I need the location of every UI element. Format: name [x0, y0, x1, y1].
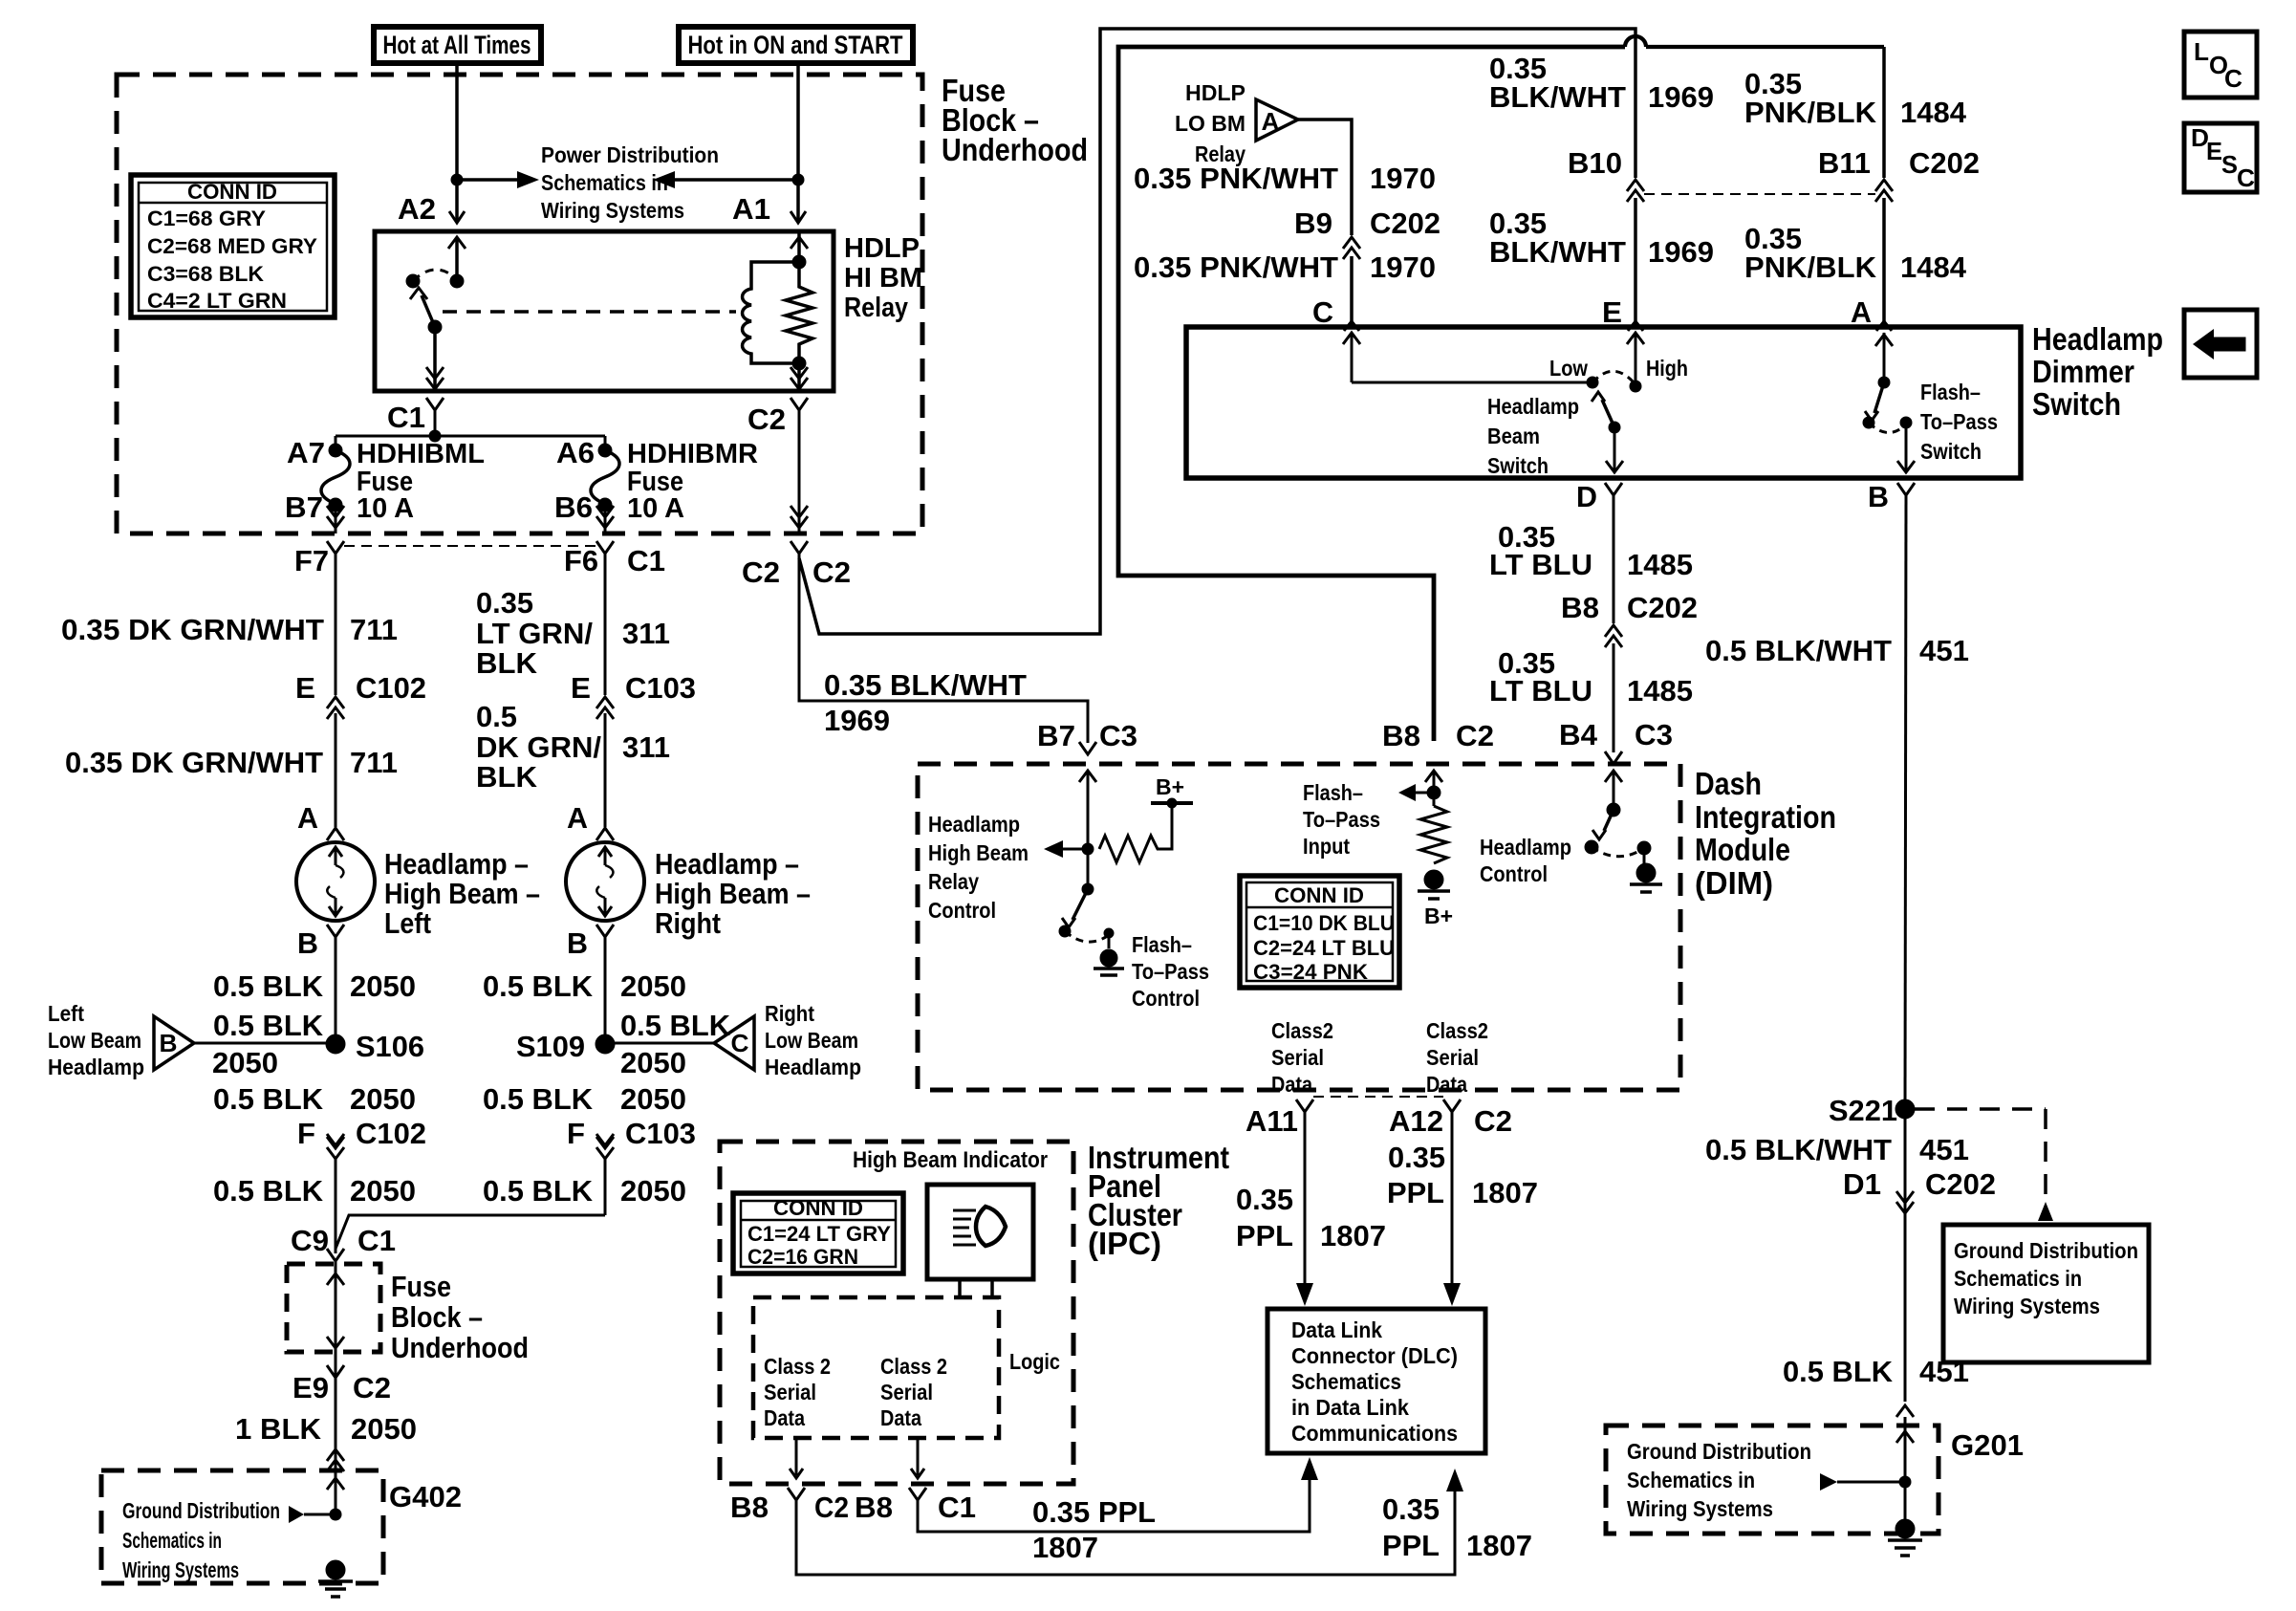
- connector C1 face F7: [327, 541, 344, 554]
- svg-text:451: 451: [1919, 634, 1969, 667]
- dashed ref from S221 to ground distribution note: [1915, 1107, 2046, 1111]
- svg-text:0.5 BLK/WHT: 0.5 BLK/WHT: [1705, 1133, 1892, 1166]
- svg-text:C2: C2: [1474, 1104, 1512, 1138]
- wire exits fuse block: right fuse output F6: [604, 505, 607, 533]
- relay pin A1 wire through coil: [797, 231, 801, 262]
- svg-text:Wiring Systems: Wiring Systems: [541, 198, 684, 223]
- svg-text:B11: B11: [1818, 146, 1871, 180]
- svg-text:Headlamp: Headlamp: [1487, 394, 1579, 419]
- off-page ref: Right Low Beam Headlamp (triangle C): [605, 1042, 714, 1045]
- svg-text:Switch: Switch: [1920, 439, 1982, 464]
- IPC logic block (dashed): [753, 1297, 999, 1438]
- svg-text:Schematics in: Schematics in: [541, 170, 668, 195]
- splice S109: [596, 1034, 615, 1054]
- connector mate dashed link B10-B11: [1644, 193, 1875, 195]
- svg-text:Underhood: Underhood: [391, 1331, 529, 1364]
- svg-text:Low Beam: Low Beam: [48, 1028, 141, 1053]
- svg-text:1969: 1969: [1648, 80, 1714, 114]
- svg-text:Logic: Logic: [1009, 1349, 1060, 1374]
- svg-text:C3: C3: [1099, 719, 1137, 752]
- svg-text:E9: E9: [292, 1371, 329, 1404]
- svg-text:2050: 2050: [212, 1046, 278, 1079]
- svg-text:Serial: Serial: [764, 1380, 816, 1404]
- lamp: Headlamp - High Beam - Right: [566, 842, 644, 921]
- indicator lamp leads: [958, 1279, 962, 1297]
- relay switch output wire to C1: [433, 327, 437, 391]
- svg-text:LT BLU: LT BLU: [1489, 548, 1592, 581]
- wire continues to G201: [1904, 1109, 1907, 1402]
- svg-text:Low: Low: [1549, 356, 1588, 381]
- svg-text:0.35 PNK/WHT: 0.35 PNK/WHT: [1134, 250, 1338, 284]
- svg-text:C: C: [731, 1029, 749, 1057]
- svg-text:B8: B8: [855, 1491, 893, 1524]
- svg-text:0.35 PPL: 0.35 PPL: [1032, 1495, 1156, 1529]
- signal ground (flash-to-pass control): [1100, 949, 1117, 967]
- svg-text:PNK/BLK: PNK/BLK: [1744, 96, 1877, 129]
- relay box: HDLP HI BM Relay: [375, 231, 834, 391]
- wire exits fuse block: left fuse output F7: [335, 505, 337, 533]
- svg-text:Fuse: Fuse: [391, 1270, 451, 1303]
- svg-text:Control: Control: [928, 898, 996, 923]
- svg-text:2050: 2050: [620, 1082, 686, 1116]
- headlamp beam switch arm: [1609, 422, 1620, 433]
- CONN ID table (fuse block underhood): [131, 175, 335, 317]
- svg-text:C3=24 PNK: C3=24 PNK: [1253, 960, 1368, 984]
- svg-text:C1: C1: [357, 1224, 396, 1257]
- svg-text:Relay: Relay: [844, 293, 908, 323]
- svg-text:Beam: Beam: [1487, 424, 1540, 448]
- svg-text:D: D: [1576, 480, 1597, 513]
- connector C2/C2 below fuse block: [791, 541, 808, 554]
- connector C202 pin B9: [1343, 237, 1360, 249]
- svg-text:Data: Data: [1426, 1072, 1467, 1097]
- svg-text:Wiring Systems: Wiring Systems: [1627, 1496, 1773, 1521]
- svg-text:0.5 BLK/WHT: 0.5 BLK/WHT: [1705, 634, 1892, 667]
- power tag box: Hot at All Times: [374, 27, 541, 63]
- svg-text:10 A: 10 A: [357, 493, 414, 524]
- svg-text:2050: 2050: [620, 1046, 686, 1079]
- connector pin B8/C1 (IPC): [909, 1488, 926, 1500]
- svg-text:B: B: [567, 926, 588, 960]
- svg-text:C202: C202: [1925, 1167, 1996, 1201]
- svg-text:PPL: PPL: [1387, 1176, 1444, 1209]
- headlamp beam switch Low contact: [1587, 377, 1598, 388]
- svg-text:2050: 2050: [350, 1082, 416, 1116]
- svg-text:B8: B8: [730, 1491, 769, 1524]
- svg-text:DK GRN/: DK GRN/: [476, 730, 601, 764]
- relay coil: [792, 255, 806, 269]
- dimmer pin A entry arrow: [1876, 321, 1892, 331]
- svg-text:B8: B8: [1561, 591, 1599, 624]
- wire 1807: IPC C2 serial data to DLC (right arrow): [796, 1491, 1455, 1575]
- DIM pin B7 entry arrow: [1087, 773, 1090, 795]
- svg-text:C2=24 LT BLU: C2=24 LT BLU: [1253, 936, 1395, 960]
- svg-text:A2: A2: [398, 192, 436, 226]
- svg-text:Connector (DLC): Connector (DLC): [1291, 1343, 1458, 1368]
- svg-text:Class2: Class2: [1426, 1018, 1488, 1043]
- DIM input pull resistor to B+: [1433, 792, 1436, 806]
- svg-text:Flash–: Flash–: [1920, 380, 1981, 404]
- svg-text:HDLP: HDLP: [1185, 80, 1245, 105]
- svg-text:C2: C2: [1456, 719, 1494, 752]
- svg-text:Input: Input: [1303, 834, 1350, 859]
- relay switch movable arm: [428, 320, 442, 334]
- svg-text:Low Beam: Low Beam: [765, 1028, 858, 1053]
- svg-text:PPL: PPL: [1382, 1529, 1440, 1562]
- svg-text:C102: C102: [356, 1117, 426, 1150]
- CONN ID table (DIM): [1240, 876, 1399, 988]
- svg-text:C202: C202: [1627, 591, 1698, 624]
- svg-text:Serial: Serial: [1271, 1045, 1324, 1070]
- svg-text:BLK: BLK: [476, 760, 538, 794]
- svg-text:S109: S109: [516, 1030, 585, 1063]
- svg-text:2050: 2050: [350, 969, 416, 1003]
- svg-text:HI BM: HI BM: [844, 263, 922, 294]
- svg-text:Wiring Systems: Wiring Systems: [122, 1557, 239, 1582]
- svg-text:1 BLK: 1 BLK: [235, 1412, 322, 1446]
- svg-text:High Beam Indicator: High Beam Indicator: [853, 1147, 1048, 1173]
- DIM pin B8 (flash-to-pass input) entry arrow: [1433, 773, 1436, 795]
- module box: Instrument Panel Cluster (IPC): [720, 1142, 1073, 1484]
- svg-text:0.35: 0.35: [1382, 1492, 1440, 1526]
- connector mate dashed link A11-A12: [1313, 1096, 1443, 1098]
- svg-text:Wiring Systems: Wiring Systems: [1954, 1294, 2100, 1318]
- svg-text:High: High: [1646, 356, 1688, 381]
- off-page arrow from A1 to Power Distribution (left): [792, 174, 804, 185]
- splice S106: [326, 1034, 345, 1054]
- ground ref arrow (G402): [330, 1509, 341, 1520]
- svg-text:Data Link: Data Link: [1291, 1317, 1382, 1342]
- svg-text:B8: B8: [1382, 719, 1420, 752]
- wire 1969 continues through C202 B10 to dimmer pin E: [1634, 198, 1637, 327]
- svg-text:Headlamp: Headlamp: [48, 1055, 144, 1079]
- connector C2 pin E9: [327, 1365, 344, 1378]
- svg-text:C202: C202: [1370, 207, 1440, 240]
- CONN ID table (IPC): [733, 1193, 903, 1274]
- component box: Headlamp Dimmer Switch: [1186, 327, 2021, 478]
- svg-text:0.35 BLK/WHT: 0.35 BLK/WHT: [824, 668, 1027, 702]
- high beam indicator icon: [953, 1209, 976, 1212]
- connector pin B8/C2 (IPC): [788, 1488, 805, 1500]
- svg-text:Serial: Serial: [1426, 1045, 1479, 1070]
- svg-text:F6: F6: [564, 544, 598, 577]
- headlamp beam switch output to pin D: [1614, 427, 1616, 470]
- svg-text:711: 711: [350, 613, 398, 646]
- svg-text:C1: C1: [627, 544, 665, 577]
- svg-text:C9: C9: [291, 1224, 329, 1257]
- svg-text:Communications: Communications: [1291, 1421, 1458, 1446]
- svg-text:B+: B+: [1156, 774, 1184, 799]
- wire: Hot at All Times feed to relay pin A2: [455, 63, 459, 221]
- svg-text:Headlamp –: Headlamp –: [655, 847, 799, 881]
- connector C202 pin B11: [1875, 180, 1893, 191]
- svg-text:0.5 BLK: 0.5 BLK: [213, 1082, 324, 1116]
- svg-text:To–Pass: To–Pass: [1132, 959, 1209, 984]
- connector C202 pin B8: [1605, 625, 1622, 637]
- svg-text:Class 2: Class 2: [764, 1354, 831, 1379]
- svg-text:LT BLU: LT BLU: [1489, 674, 1592, 708]
- svg-text:Dash: Dash: [1695, 766, 1762, 801]
- svg-text:Headlamp: Headlamp: [765, 1055, 861, 1079]
- svg-text:451: 451: [1919, 1355, 1969, 1388]
- svg-text:C1=10 DK BLU: C1=10 DK BLU: [1253, 911, 1395, 935]
- svg-text:311: 311: [622, 730, 670, 764]
- wire 1969: relay C2 to dimmer High contact (long route): [799, 29, 1635, 634]
- DIM pull-up resistor to B+: [1099, 803, 1172, 862]
- svg-text:Left: Left: [48, 1001, 84, 1026]
- svg-text:E: E: [1602, 295, 1622, 329]
- wire: C1 feed to both high-beam fuses: [429, 430, 441, 442]
- high beam indicator lamp box: [927, 1185, 1033, 1279]
- wire 1807: IPC C1 serial data to DLC (left arrow): [918, 1480, 1310, 1532]
- svg-text:HDHIBMR: HDHIBMR: [627, 439, 758, 469]
- note box: Ground Distribution Schematics in Wiring Systems (right): [1943, 1225, 2149, 1362]
- off-page arrow to Power Distribution (right): [457, 178, 517, 182]
- svg-text:Ground Distribution: Ground Distribution: [1954, 1238, 2138, 1263]
- svg-text:Headlamp: Headlamp: [2032, 321, 2163, 357]
- svg-text:1807: 1807: [1032, 1531, 1098, 1564]
- B+ supply bar: [1151, 801, 1193, 805]
- lamp: Headlamp - High Beam - Left: [296, 842, 375, 921]
- fuse block underhood pass-through (dashed): [287, 1264, 380, 1352]
- svg-text:in Data Link: in Data Link: [1291, 1395, 1409, 1420]
- svg-text:Headlamp: Headlamp: [928, 812, 1020, 837]
- svg-text:Block –: Block –: [391, 1300, 483, 1334]
- svg-text:B: B: [297, 926, 318, 960]
- svg-text:Schematics in: Schematics in: [122, 1528, 222, 1553]
- svg-text:C103: C103: [625, 671, 696, 705]
- svg-text:C2: C2: [742, 555, 780, 589]
- svg-text:Underhood: Underhood: [942, 132, 1088, 167]
- svg-text:0.35 DK GRN/WHT: 0.35 DK GRN/WHT: [61, 613, 324, 646]
- svg-text:1807: 1807: [1466, 1529, 1532, 1562]
- svg-text:2050: 2050: [350, 1174, 416, 1208]
- svg-text:Power Distribution: Power Distribution: [541, 142, 719, 167]
- svg-text:B: B: [1868, 480, 1889, 513]
- svg-text:PPL: PPL: [1236, 1219, 1293, 1252]
- svg-text:C2: C2: [812, 555, 851, 589]
- svg-text:LO BM: LO BM: [1175, 111, 1245, 136]
- svg-text:0.5 BLK: 0.5 BLK: [620, 1009, 731, 1042]
- svg-text:F7: F7: [294, 544, 329, 577]
- svg-text:E: E: [571, 671, 591, 705]
- svg-text:Switch: Switch: [1487, 453, 1549, 478]
- svg-text:0.35 DK GRN/WHT: 0.35 DK GRN/WHT: [65, 746, 323, 779]
- DIM flash-to-pass control switch: [1087, 849, 1090, 889]
- svg-text:B6: B6: [554, 490, 593, 524]
- svg-text:D1: D1: [1843, 1167, 1881, 1201]
- svg-text:C2: C2: [353, 1371, 391, 1404]
- svg-text:1484: 1484: [1900, 250, 1967, 284]
- svg-text:711: 711: [350, 746, 398, 779]
- wire 1970: LO BM relay to dimmer pin C: [1298, 120, 1352, 235]
- svg-text:0.5 BLK: 0.5 BLK: [213, 1174, 324, 1208]
- svg-text:B+: B+: [1424, 903, 1453, 928]
- svg-text:Flash–: Flash–: [1132, 932, 1192, 957]
- svg-text:A: A: [1851, 295, 1872, 329]
- connector C202 pin B10: [1627, 180, 1644, 191]
- svg-text:F: F: [567, 1117, 585, 1150]
- svg-text:(DIM): (DIM): [1695, 865, 1773, 901]
- svg-text:Schematics: Schematics: [1291, 1369, 1401, 1394]
- note box: Data Link Connector (DLC) Schematics in Data Link Communications: [1267, 1309, 1485, 1453]
- DESC legend box: [2184, 123, 2257, 192]
- DIM headlamp high beam relay control driver arrow: [1082, 843, 1094, 855]
- svg-text:C2=68 MED GRY: C2=68 MED GRY: [147, 234, 317, 258]
- svg-text:B10: B10: [1568, 146, 1622, 180]
- svg-text:A12: A12: [1389, 1104, 1443, 1138]
- svg-text:C4=2 LT GRN: C4=2 LT GRN: [147, 289, 287, 313]
- svg-text:A6: A6: [556, 436, 595, 469]
- IPC serial data output arrows: [795, 1438, 798, 1475]
- svg-text:Integration: Integration: [1695, 799, 1836, 835]
- wire exits fuse block: relay coil return C2: [798, 512, 801, 533]
- svg-text:1969: 1969: [824, 704, 890, 737]
- connector mate dashed link F7-F6: [344, 545, 596, 547]
- svg-text:Serial: Serial: [880, 1380, 933, 1404]
- svg-text:0.5 BLK: 0.5 BLK: [483, 1174, 594, 1208]
- svg-text:BLK/WHT: BLK/WHT: [1489, 235, 1626, 269]
- svg-text:C1: C1: [938, 1491, 976, 1524]
- svg-text:1807: 1807: [1472, 1176, 1538, 1209]
- headlamp beam switch High contact: [1630, 381, 1641, 392]
- svg-text:0.35 PNK/WHT: 0.35 PNK/WHT: [1134, 162, 1338, 195]
- svg-text:1969: 1969: [1648, 235, 1714, 269]
- dimmer pin D connector: [1605, 483, 1622, 495]
- svg-text:451: 451: [1919, 1133, 1969, 1166]
- DIM pin B4 (headlamp control) entry arrow: [1613, 773, 1615, 795]
- svg-text:F: F: [297, 1117, 315, 1150]
- svg-text:1970: 1970: [1370, 162, 1436, 195]
- svg-text:S: S: [2221, 150, 2238, 179]
- svg-text:Headlamp –: Headlamp –: [384, 847, 529, 881]
- junction on A2 feed: [451, 174, 463, 185]
- svg-text:Control: Control: [1132, 986, 1200, 1011]
- svg-text:C: C: [1312, 295, 1333, 329]
- wire 451: dimmer pin B down to splice S221: [1905, 495, 1906, 1109]
- svg-text:0.5 BLK: 0.5 BLK: [483, 1082, 594, 1116]
- svg-text:B7: B7: [285, 490, 323, 524]
- svg-text:S221: S221: [1829, 1094, 1897, 1127]
- svg-text:A7: A7: [287, 436, 325, 469]
- svg-text:C2=16 GRN: C2=16 GRN: [747, 1245, 858, 1269]
- svg-text:Hot in ON and START: Hot in ON and START: [688, 31, 903, 59]
- module box: Dash Integration Module (DIM): [918, 764, 1680, 1090]
- svg-text:G402: G402: [389, 1480, 462, 1513]
- svg-text:C3=68 BLK: C3=68 BLK: [147, 262, 264, 286]
- ground ref arrow (G201): [1899, 1476, 1911, 1488]
- svg-text:G201: G201: [1951, 1428, 2024, 1462]
- svg-text:311: 311: [622, 617, 670, 650]
- svg-text:1970: 1970: [1370, 250, 1436, 284]
- svg-text:Class2: Class2: [1271, 1018, 1333, 1043]
- svg-text:C103: C103: [625, 1117, 696, 1150]
- headlamp beam switch throw arc (dashed): [1592, 371, 1635, 383]
- svg-text:Hot at All Times: Hot at All Times: [383, 31, 531, 59]
- flash-to-pass output to pin B: [1900, 417, 1912, 428]
- svg-text:Schematics in: Schematics in: [1627, 1468, 1755, 1492]
- svg-text:CONN ID: CONN ID: [187, 180, 277, 204]
- svg-text:E: E: [295, 671, 315, 705]
- svg-text:0.5: 0.5: [476, 700, 517, 733]
- relay switch dashed throw arc: [413, 270, 457, 281]
- svg-text:0.35: 0.35: [1388, 1141, 1445, 1174]
- svg-text:Data: Data: [1271, 1072, 1312, 1097]
- DIM flash-to-pass input arrow: [1427, 786, 1440, 799]
- wire hop over 1969 vertical: [1625, 36, 1646, 47]
- svg-text:1485: 1485: [1627, 674, 1693, 708]
- svg-text:Schematics in: Schematics in: [1954, 1266, 2082, 1291]
- svg-text:To–Pass: To–Pass: [1920, 409, 1998, 434]
- wire: Hot in ON and START feed to relay pin A1: [796, 63, 800, 221]
- svg-text:PNK/BLK: PNK/BLK: [1744, 250, 1877, 284]
- relay pin A2 arrow (coil feed in): [455, 239, 459, 281]
- svg-text:A: A: [1262, 107, 1280, 136]
- wire 1484: dimmer pin A through C202 B11 to DIM flash-to-pass input: [1882, 47, 1886, 178]
- svg-text:B: B: [160, 1029, 178, 1057]
- LOC legend box: [2184, 32, 2257, 98]
- svg-text:High Beam: High Beam: [928, 840, 1029, 865]
- svg-text:High Beam –: High Beam –: [655, 877, 811, 910]
- svg-text:A: A: [567, 801, 588, 835]
- wire 1969: fuse block C2 to DIM high-beam relay control: [799, 554, 1088, 743]
- svg-text:0.35: 0.35: [476, 586, 533, 620]
- svg-text:Switch: Switch: [2032, 386, 2121, 422]
- svg-text:Ground Distribution: Ground Distribution: [122, 1498, 280, 1523]
- svg-text:Right: Right: [765, 1001, 814, 1026]
- svg-text:CONN ID: CONN ID: [1274, 883, 1364, 907]
- signal ground (headlamp control): [1636, 863, 1656, 882]
- svg-text:CONN ID: CONN ID: [773, 1196, 863, 1220]
- svg-text:Right: Right: [655, 906, 721, 940]
- svg-text:Data: Data: [880, 1405, 921, 1430]
- splice S221: [1895, 1099, 1915, 1119]
- svg-text:HDHIBML: HDHIBML: [357, 439, 485, 469]
- svg-text:0.5 BLK: 0.5 BLK: [483, 969, 594, 1003]
- svg-text:1807: 1807: [1320, 1219, 1386, 1252]
- svg-text:A: A: [297, 801, 318, 835]
- DIM headlamp control switch: [1613, 794, 1615, 810]
- fuse HDHIBML 10A (A7-B7): [329, 444, 342, 457]
- relay mechanical link (dashed) to coil: [443, 310, 736, 314]
- svg-text:C1=24 LT GRY: C1=24 LT GRY: [747, 1222, 891, 1246]
- svg-text:BLK/WHT: BLK/WHT: [1489, 80, 1626, 114]
- svg-text:Dimmer: Dimmer: [2032, 354, 2134, 389]
- svg-text:S106: S106: [356, 1030, 424, 1063]
- svg-text:C1=68 GRY: C1=68 GRY: [147, 207, 266, 230]
- flash-to-pass switch contact + arm: [1878, 377, 1890, 388]
- wire 1807: A12 serial data to DLC: [1451, 1112, 1454, 1285]
- svg-text:C2: C2: [747, 403, 786, 436]
- svg-text:(IPC): (IPC): [1088, 1226, 1161, 1261]
- svg-text:To–Pass: To–Pass: [1303, 807, 1380, 832]
- wire 1807: A11 serial data to DLC: [1304, 1112, 1307, 1285]
- connector pin A11 (DIM to IPC serial data): [1296, 1099, 1313, 1112]
- connector pin A12 / C2: [1443, 1099, 1461, 1112]
- ground G201 dashed box: [1606, 1426, 1939, 1534]
- svg-text:B4: B4: [1559, 718, 1598, 751]
- svg-text:C3: C3: [1635, 718, 1673, 751]
- svg-text:High Beam –: High Beam –: [384, 877, 540, 910]
- svg-text:Control: Control: [1480, 861, 1548, 886]
- B+ reference (drawn as ground symbol with B+ label): [1424, 870, 1443, 889]
- wire: right branch merges into left at C9: [336, 1215, 605, 1249]
- wire 1485: dimmer pin D to DIM headlamp control input: [1613, 495, 1615, 623]
- svg-text:LT GRN/: LT GRN/: [476, 617, 593, 650]
- svg-text:C: C: [2224, 64, 2242, 93]
- svg-text:C202: C202: [1909, 146, 1980, 180]
- back-arrow legend box: [2184, 310, 2257, 378]
